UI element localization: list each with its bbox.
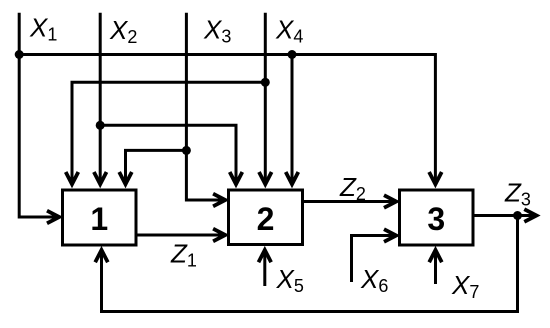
- arrowhead Z3 output: [524, 209, 536, 222]
- wire X1 vertical and into block 1 left: [19, 13, 58, 217]
- node junction on X3: [182, 146, 191, 155]
- arrowhead X2 branch into block 2 top: [230, 172, 243, 184]
- wire net X1 horizontal bus to block 3 top: [19, 55, 435, 184]
- wire X4 vertical into block 2 top: [264, 13, 267, 184]
- node junction X1/bus: [15, 50, 24, 59]
- wire X4 branch into block 1 top: [72, 82, 265, 183]
- arrowhead X7 into block 3 bottom: [429, 250, 442, 262]
- arrowhead X3 into block 2 left: [213, 194, 225, 207]
- svg-text:3: 3: [427, 201, 445, 237]
- arrowhead X4 branch into block 1 top: [66, 172, 79, 184]
- wire Z2 from block 2 to block 3: [303, 200, 396, 203]
- arrowhead X4 into block 2 top: [259, 172, 272, 184]
- arrowhead bus into block 3 top: [429, 172, 442, 184]
- wire X7 into block 3 bottom: [434, 251, 437, 284]
- node junction on Z3: [513, 211, 522, 220]
- arrowhead Z1 into block 2 left: [213, 229, 225, 242]
- arrowhead Z2 into block 3 left: [384, 195, 396, 208]
- node junction on X4: [261, 78, 270, 87]
- arrowhead bus branch into block 2 top: [286, 172, 299, 184]
- arrowhead X1 into block 1 left: [47, 211, 59, 224]
- node junction on bus at x=292: [288, 50, 297, 59]
- wire X6 into block 3 left: [352, 236, 396, 283]
- wire Z1 from block 1 to block 2: [136, 234, 224, 237]
- wire X3 branch into block 1 top: [126, 150, 187, 183]
- block 1: [63, 190, 137, 245]
- block 2: [229, 190, 303, 245]
- wire feedback from Z3 node to block 1 bottom: [102, 216, 518, 312]
- svg-text:1: 1: [90, 201, 108, 237]
- node junction on X2: [96, 121, 105, 130]
- wire X5 into block 2 bottom: [263, 251, 266, 286]
- wire branch of bus into block 2 top: [291, 55, 294, 184]
- wire X2 branch into block 2 top: [100, 125, 236, 183]
- svg-text:2: 2: [257, 201, 275, 237]
- arrowhead X6 into block 3 left: [384, 229, 396, 242]
- arrowhead X2 into block 1 top: [94, 172, 107, 184]
- wire X3 vertical into block 2 left: [186, 13, 224, 200]
- arrowhead X3 branch into block 1 top: [119, 172, 132, 184]
- arrowhead X5 into block 2 bottom: [259, 250, 272, 262]
- arrowhead feedback into block 1 bottom: [95, 250, 108, 262]
- block 3: [400, 190, 474, 245]
- wire X2 vertical into block 1 top: [99, 13, 102, 184]
- wire Z3 output of block 3: [473, 214, 536, 217]
